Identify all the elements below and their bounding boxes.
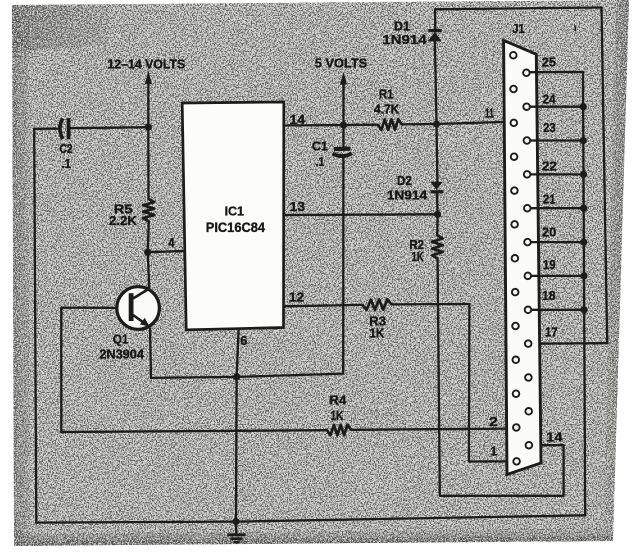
J1 pin 13 hole	[510, 52, 517, 59]
wire J1 pin 23 to ground bus	[530, 139, 583, 141]
svg-text:5 VOLTS: 5 VOLTS	[315, 57, 367, 71]
J1 pin 25 hole	[523, 70, 530, 77]
svg-text:IC1: IC1	[225, 203, 244, 218]
svg-text:1K: 1K	[412, 250, 424, 264]
svg-text:19: 19	[543, 258, 556, 272]
J1 pin 1 hole	[513, 458, 520, 465]
svg-text:1N914: 1N914	[382, 32, 427, 47]
svg-text:11: 11	[485, 107, 494, 121]
wire J1 pin 24 to ground bus	[530, 106, 583, 108]
wire J1 pin 19 to ground bus	[531, 275, 584, 277]
J1 pin 17 hole	[525, 340, 532, 347]
wire Q1 emitter down	[150, 329, 151, 378]
J1 pin 12 hole	[510, 86, 517, 93]
diode D2	[430, 182, 443, 192]
diode D1	[428, 31, 442, 42]
svg-text:20: 20	[542, 225, 556, 239]
wire bottom ground line	[36, 515, 585, 522]
wire IC pin 13 to diode bus	[284, 213, 438, 216]
svg-text:C2: C2	[60, 141, 73, 156]
svg-text:PIC16C84: PIC16C84	[206, 220, 266, 235]
wire R1 node to D2	[435, 124, 438, 182]
node bus junction pin 24	[580, 103, 587, 110]
wire J1 pin 21 to ground bus	[531, 207, 584, 209]
node pin4 junction	[144, 249, 151, 256]
J1 pin 20 hole	[524, 239, 531, 246]
J1 pin 22 hole	[524, 171, 531, 178]
node pin13/diode junction	[434, 211, 441, 218]
J1 pin 23 hole	[524, 137, 531, 144]
svg-text:12–14 VOLTS: 12–14 VOLTS	[108, 58, 186, 72]
svg-text:2N3904: 2N3904	[100, 347, 145, 362]
wire D2 to R2	[436, 192, 439, 235]
svg-text:D2: D2	[397, 173, 412, 188]
wire R3 to J1 pin 1	[392, 304, 514, 462]
node diode bus / R1 junction	[433, 120, 440, 127]
node bus junction pin 21	[580, 205, 587, 212]
wire R5 to pin4 node	[148, 221, 149, 252]
wire right border to pin 17	[602, 8, 608, 344]
node bus junction pin 22	[580, 171, 587, 178]
node 12V junction	[145, 124, 152, 131]
svg-text:13: 13	[290, 200, 306, 214]
wire top to D1	[434, 9, 437, 29]
wire to J1 pin 17	[532, 342, 607, 345]
svg-text:21: 21	[543, 193, 556, 207]
wire D1 to R1 node	[435, 41, 437, 124]
J1 pin 6 hole	[512, 289, 519, 296]
J1 pin 16 hole	[525, 374, 532, 381]
svg-text:17: 17	[545, 326, 558, 340]
resistor R4	[327, 425, 351, 436]
wire IC pin 6 to ground	[236, 330, 239, 522]
resistor R3	[363, 299, 392, 310]
wire left rail (C2 to ground line)	[34, 129, 36, 523]
J1 pin 11 hole	[511, 120, 518, 127]
svg-text:Q1: Q1	[113, 331, 129, 346]
J1 pin 4 hole	[513, 357, 520, 364]
svg-text:24: 24	[543, 92, 556, 106]
J1 pin 3 hole	[513, 390, 520, 397]
wire C1 to ground link	[342, 156, 344, 374]
J1 pin 21 hole	[524, 205, 531, 212]
wire J1 pin 20 to ground bus	[531, 241, 584, 243]
capacitor C2	[60, 118, 69, 139]
wire top line	[435, 8, 602, 10]
wire base loop to R4	[61, 430, 327, 432]
ground	[227, 522, 245, 543]
svg-text:4: 4	[168, 236, 174, 250]
power +5V arrow	[340, 72, 347, 125]
svg-text:.1: .1	[62, 156, 72, 171]
J1 pin 10 hole	[511, 153, 518, 160]
svg-text:6: 6	[240, 334, 247, 348]
wire R4 to J1 pin 2	[351, 429, 512, 430]
resistor R1	[378, 119, 402, 130]
svg-text:22: 22	[542, 160, 557, 174]
wire J1 pin 22 to ground bus	[530, 173, 583, 175]
J1 pin 7 hole	[512, 255, 519, 262]
node ground junction	[232, 518, 239, 525]
wire R1 to J1 pin 11	[402, 122, 511, 125]
node 5V junction	[340, 121, 347, 128]
J1 pin 19 hole	[525, 273, 532, 280]
wire IC pin 14 to 5V node	[284, 124, 344, 127]
J1 pin 8 hole	[511, 221, 518, 228]
J1 pin 14 hole	[526, 442, 533, 449]
svg-text:14: 14	[546, 430, 562, 444]
wire to R5	[147, 127, 149, 199]
svg-text:R4: R4	[329, 392, 347, 407]
J1 pin 18 hole	[525, 307, 532, 314]
power +12-14V arrow	[145, 70, 152, 127]
svg-text:2: 2	[489, 415, 498, 429]
transistor Q1	[117, 287, 160, 330]
wire 5V node to C1	[342, 125, 344, 146]
capacitor C1	[333, 149, 352, 157]
svg-text:2.2K: 2.2K	[109, 214, 137, 228]
wire C2 left	[34, 127, 59, 129]
svg-text:1N914: 1N914	[387, 189, 427, 203]
J1 pin 2 hole	[513, 424, 520, 431]
node pin6 junction	[233, 373, 240, 380]
wire C2 to 12V node	[70, 127, 148, 128]
wire IC pin 4	[148, 251, 184, 252]
svg-text:R1: R1	[379, 87, 394, 102]
wire J1 pin 18 to ground bus	[531, 309, 584, 311]
node bus junction pin 19	[580, 272, 587, 279]
wire 5V node to R1	[344, 124, 378, 127]
wire Q1 base loop	[61, 308, 117, 432]
J1 pin 24 hole	[523, 103, 530, 110]
svg-text:14: 14	[290, 113, 306, 127]
svg-text:1: 1	[491, 445, 498, 459]
stray tick mark	[574, 26, 577, 32]
wire J1 pin 25 to ground bus	[530, 72, 586, 515]
wire collector Q1	[148, 252, 150, 288]
node bus junction pin 20	[580, 239, 587, 246]
svg-text:1K: 1K	[331, 409, 344, 423]
svg-text:25: 25	[542, 55, 556, 69]
node bus junction pin 18	[581, 306, 588, 313]
svg-text:1K: 1K	[369, 326, 384, 340]
svg-text:18: 18	[542, 289, 556, 303]
J1 pin 9 hole	[511, 187, 518, 194]
J1 pin 5 hole	[512, 323, 519, 330]
resistor R5	[143, 199, 154, 221]
svg-text:.1: .1	[316, 155, 325, 169]
svg-text:12: 12	[289, 290, 305, 304]
J1 pin 15 hole	[525, 408, 532, 415]
wire emitter/pin6/C1 ground link	[151, 374, 343, 378]
wire IC pin 12 to R3	[284, 305, 363, 306]
op-amp IC U1 PIC16C84 body	[182, 102, 284, 330]
svg-text:J1: J1	[512, 21, 524, 36]
svg-text:C1: C1	[312, 138, 328, 153]
resistor R2	[432, 235, 443, 259]
node bus junction pin 23	[580, 137, 587, 144]
svg-text:4.7K: 4.7K	[374, 103, 399, 117]
wire R2 down and around to J1 pin 14	[438, 259, 564, 496]
connector J1 body	[504, 40, 541, 474]
svg-text:23: 23	[543, 121, 555, 135]
